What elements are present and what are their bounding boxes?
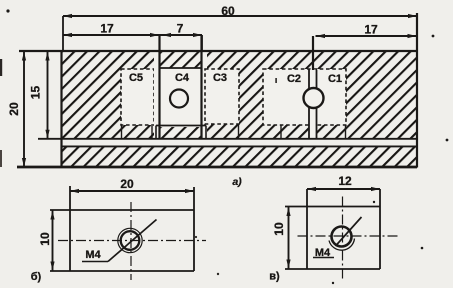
svg-text:б): б) bbox=[31, 271, 42, 283]
thread hole M4 bbox=[329, 239, 355, 251]
hatched bar upper part bbox=[62, 51, 418, 139]
svg-text:17: 17 bbox=[100, 22, 114, 36]
rect outline bbox=[285, 206, 380, 208]
bottom edge bbox=[17, 166, 417, 169]
slot feet bbox=[155, 126, 157, 139]
svg-text:в): в) bbox=[269, 271, 280, 283]
extension line into bar bbox=[312, 36, 314, 70]
centerline vertical bbox=[130, 202, 132, 280]
top edge bbox=[19, 50, 417, 52]
pocket C5 (white, dashed) bbox=[121, 69, 154, 139]
hole C4 bbox=[170, 90, 188, 108]
dim 7 bbox=[162, 22, 202, 52]
svg-text:C5: C5 bbox=[129, 72, 143, 84]
svg-text:10: 10 bbox=[38, 232, 52, 246]
pocket C1 foot bbox=[345, 125, 347, 139]
rect outline bbox=[50, 209, 194, 211]
dim 10 bbox=[288, 207, 290, 270]
svg-text:60: 60 bbox=[221, 4, 235, 18]
svg-text:20: 20 bbox=[7, 102, 21, 116]
left edge bbox=[60, 51, 62, 168]
dim 17 right bbox=[316, 23, 418, 39]
leader M4 bbox=[313, 257, 334, 259]
slot left wall bbox=[158, 35, 160, 139]
svg-text:15: 15 bbox=[29, 86, 43, 100]
dim 15 vertical bbox=[29, 51, 50, 139]
right edge bbox=[416, 13, 418, 168]
screw slot left wall bbox=[308, 70, 310, 139]
svg-text:C4: C4 bbox=[175, 72, 190, 84]
leader M4 bbox=[82, 261, 108, 263]
pocket C5 right foot bbox=[151, 126, 153, 139]
svg-text:12: 12 bbox=[338, 174, 352, 188]
svg-text:C3: C3 bbox=[213, 72, 227, 84]
pocket C5 left foot bbox=[121, 125, 123, 139]
hatched bar bottom band bbox=[62, 146, 418, 167]
pocket C2 foot bbox=[280, 125, 282, 139]
svg-text:M4: M4 bbox=[315, 247, 331, 259]
slot top bbox=[160, 67, 202, 69]
pocket C3 right foot bbox=[238, 124, 240, 139]
svg-text:17: 17 bbox=[364, 23, 378, 37]
centerline vertical bbox=[342, 197, 344, 280]
scan specks bbox=[0, 59, 2, 76]
dim 20 bbox=[70, 190, 194, 192]
slot right wall bbox=[200, 35, 202, 139]
channel bottom line bbox=[62, 145, 418, 147]
slot C4 (white, solid walls) bbox=[154, 35, 207, 139]
dim 60 bbox=[63, 4, 417, 51]
centerline horizontal bbox=[58, 240, 206, 242]
hole C2 bbox=[304, 88, 324, 108]
dim 17 left bbox=[63, 22, 202, 38]
svg-text:M4: M4 bbox=[85, 249, 101, 261]
centerline horizontal bbox=[298, 235, 400, 237]
pocket C3 (white, dashed) bbox=[205, 69, 239, 139]
svg-text:20: 20 bbox=[120, 177, 134, 191]
thread hole M4 bbox=[118, 228, 142, 252]
dim 12 bbox=[307, 188, 380, 190]
svg-text:C2: C2 bbox=[287, 73, 301, 85]
svg-text:10: 10 bbox=[272, 222, 286, 236]
svg-text:а): а) bbox=[232, 176, 242, 188]
channel top line bbox=[38, 138, 417, 140]
dim 20 vertical bbox=[7, 51, 26, 167]
screw slot between C2 and C1 bbox=[304, 36, 324, 139]
bar outline bbox=[17, 13, 417, 168]
svg-text:C1: C1 bbox=[328, 73, 342, 85]
screw slot right wall bbox=[316, 70, 318, 139]
dim 10 bbox=[52, 210, 54, 271]
slot bottom bbox=[156, 125, 206, 127]
svg-text:7: 7 bbox=[177, 22, 184, 36]
pocket C2-C1 (white, dashed) bbox=[263, 69, 346, 139]
